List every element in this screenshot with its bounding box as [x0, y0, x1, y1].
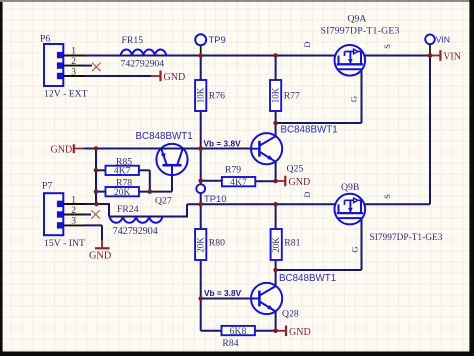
ferrite bead FR15: [121, 49, 167, 55]
wire: [149, 170, 151, 191]
wire: [200, 193, 202, 204]
wire: [85, 224, 102, 226]
svg-text:R84: R84: [222, 338, 238, 349]
transistor Q9A: [335, 45, 366, 76]
svg-text:Vb = 3.8V: Vb = 3.8V: [204, 139, 242, 149]
svg-text:Q9B: Q9B: [341, 182, 359, 193]
wire: [96, 169, 106, 171]
wire: [361, 203, 430, 205]
wire: [361, 55, 430, 57]
transistor Q27: [156, 144, 187, 176]
junction: [273, 179, 278, 184]
junction: [198, 53, 203, 58]
junction: [148, 189, 153, 194]
svg-text:R79: R79: [225, 164, 241, 175]
junction: [273, 202, 278, 207]
svg-text:GND: GND: [89, 250, 112, 261]
transistor Q9B: [335, 194, 366, 225]
wire: [275, 312, 277, 331]
wire: [200, 56, 202, 81]
svg-text:SI7997DP-T1-GE3: SI7997DP-T1-GE3: [321, 26, 400, 37]
wire: [200, 261, 202, 331]
svg-text:R77: R77: [284, 90, 300, 101]
power port GND (P7 pin3): [89, 240, 112, 261]
wire: [275, 204, 277, 229]
wire: [275, 162, 277, 182]
resistor R78: [106, 187, 139, 196]
resistor R84: [222, 326, 255, 335]
wire: [101, 225, 103, 240]
svg-text:SI7997DP-T1-GE3: SI7997DP-T1-GE3: [370, 233, 443, 243]
svg-text:VIN: VIN: [443, 51, 461, 62]
junction: [273, 268, 278, 273]
junction: [198, 296, 203, 301]
svg-text:2: 2: [71, 57, 76, 67]
svg-text:P7: P7: [42, 180, 52, 191]
transistor Q28: [251, 283, 282, 314]
svg-text:2: 2: [71, 206, 76, 216]
svg-text:20K: 20K: [196, 237, 206, 253]
junction: [198, 202, 203, 207]
svg-text:S: S: [382, 44, 392, 49]
svg-text:BC848BWT1: BC848BWT1: [136, 131, 193, 142]
junction: [273, 121, 278, 126]
wire: [139, 169, 150, 171]
junction: [198, 146, 203, 151]
power port GND (left, Vb divider): [51, 144, 85, 155]
junction: [94, 146, 99, 151]
wire: [275, 261, 277, 286]
svg-text:S: S: [382, 194, 392, 199]
resistor R85: [106, 166, 139, 175]
wire: [139, 191, 172, 193]
wire: [186, 204, 188, 217]
power port GND (Q28 emitter): [276, 326, 311, 338]
wire: [84, 214, 91, 216]
svg-text:Q27: Q27: [155, 195, 172, 206]
svg-text:G: G: [350, 246, 360, 252]
wire: [171, 165, 173, 191]
svg-text:15V - INT: 15V - INT: [44, 238, 85, 249]
svg-text:FR24: FR24: [117, 204, 139, 215]
svg-text:GND: GND: [164, 72, 186, 83]
junction: [94, 189, 99, 194]
resistor R76: [195, 80, 206, 111]
svg-text:3: 3: [71, 67, 76, 77]
pin numbers P6: [71, 47, 76, 78]
wire: [201, 180, 222, 182]
svg-text:TP10: TP10: [204, 193, 226, 204]
svg-text:BC848BWT1: BC848BWT1: [281, 125, 338, 136]
svg-text:20K: 20K: [271, 237, 281, 253]
wire: [361, 69, 363, 123]
wire: [84, 65, 92, 67]
wire: [85, 55, 339, 57]
svg-text:Q25: Q25: [287, 164, 304, 175]
resistor R79: [222, 177, 255, 186]
wire: [95, 149, 97, 205]
svg-text:1: 1: [71, 195, 76, 205]
wire: [85, 203, 96, 205]
resistor R77: [270, 80, 281, 111]
wire: [276, 122, 362, 124]
svg-text:1: 1: [71, 47, 76, 57]
no-ERC cross (P7 pin 2): [91, 210, 100, 219]
svg-text:Q28: Q28: [282, 309, 299, 320]
svg-text:GND: GND: [289, 177, 311, 188]
power port VIN: [430, 50, 461, 62]
svg-text:GND: GND: [289, 327, 311, 338]
connector VIN testpoint: [425, 35, 435, 56]
wire: [200, 204, 202, 229]
svg-text:742792904: 742792904: [121, 59, 165, 70]
svg-text:10K: 10K: [196, 87, 206, 103]
svg-text:G: G: [349, 96, 359, 102]
svg-text:4K7: 4K7: [114, 166, 131, 177]
svg-text:10K: 10K: [270, 87, 280, 103]
svg-text:12V - EXT: 12V - EXT: [44, 89, 88, 100]
svg-text:GND: GND: [51, 145, 73, 156]
wire: [361, 218, 363, 270]
wire: [429, 56, 431, 205]
wire: [200, 111, 202, 184]
wire: [275, 56, 277, 81]
wire: [222, 180, 276, 182]
junction: [273, 53, 278, 58]
svg-text:P6: P6: [40, 34, 50, 45]
junction: [198, 179, 203, 184]
svg-text:R81: R81: [284, 237, 300, 248]
svg-text:FR15: FR15: [122, 35, 144, 46]
svg-text:R76: R76: [209, 90, 225, 101]
wire: [276, 269, 362, 271]
junction: [94, 168, 99, 173]
transistor Q25: [251, 133, 282, 164]
power port GND (P6 pin3): [151, 70, 185, 82]
junction: [428, 53, 433, 58]
wire: [96, 191, 106, 193]
wire: [201, 330, 222, 332]
svg-text:4K7: 4K7: [230, 177, 247, 188]
svg-text:Vb = 3.8V: Vb = 3.8V: [204, 288, 242, 298]
svg-text:R80: R80: [209, 237, 225, 248]
test point TP10: [196, 184, 205, 193]
svg-text:D: D: [302, 41, 312, 47]
connector P7: [44, 193, 85, 235]
junction: [273, 329, 278, 334]
wire: [275, 111, 277, 136]
svg-text:742792904: 742792904: [113, 226, 158, 237]
wire: [84, 148, 251, 150]
svg-text:BC848BWT1: BC848BWT1: [279, 273, 336, 284]
svg-text:3: 3: [71, 217, 76, 227]
wire: [85, 75, 151, 77]
svg-text:TP9: TP9: [209, 34, 226, 45]
svg-text:D: D: [302, 191, 312, 197]
svg-text:Q9A: Q9A: [348, 14, 367, 25]
wire: [108, 203, 110, 217]
svg-text:VIN: VIN: [436, 34, 450, 44]
wire: [85, 203, 109, 205]
ferrite bead FR24: [110, 217, 163, 223]
connector P6: [44, 44, 85, 86]
svg-text:20K: 20K: [114, 187, 131, 198]
wire: [187, 203, 339, 205]
wire: [109, 216, 187, 218]
junction: [94, 202, 99, 207]
wire: [255, 330, 276, 332]
pin numbers P7: [71, 195, 76, 226]
wire: [201, 298, 252, 300]
resistor R81: [271, 229, 282, 260]
svg-text:6K8: 6K8: [230, 326, 247, 337]
power port GND (Q25 emitter): [276, 176, 311, 188]
test point TP9: [195, 34, 206, 55]
resistor R80: [195, 229, 206, 260]
wire: [84, 148, 251, 150]
no-ERC cross (P6 pin 2): [92, 63, 101, 72]
